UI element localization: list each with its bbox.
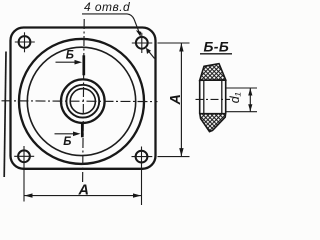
- section view: bottom hatched pentagon: [200, 114, 226, 132]
- bottom dimension A: dimension line with arrows: [24, 195, 142, 197]
- section arrow bottom: [55, 133, 75, 135]
- svg-text:d₁: d₁: [228, 92, 242, 103]
- central bore circle middle: [66, 85, 99, 118]
- corner hole bottom-left: [14, 150, 34, 162]
- flange outer circle: [19, 39, 144, 164]
- horizontal centerline (dash-dot): [2, 100, 158, 103]
- second arrow pointing at hole from lower right: [148, 51, 155, 59]
- svg-text:4 отв.d: 4 отв.d: [84, 0, 130, 14]
- section trace Б thick segment bottom: [81, 123, 84, 137]
- svg-text:Б: Б: [63, 136, 71, 148]
- svg-text:A: A: [78, 182, 89, 198]
- plate outline (rounded square, front view): [11, 28, 156, 169]
- scan artifact: dark page-edge line at far left: [4, 52, 6, 178]
- right dimension A: dimension line with arrows: [180, 43, 182, 157]
- section view: top hatched quad: [200, 64, 226, 81]
- right dimension A: extension lines: [158, 42, 190, 44]
- section view: horizontal edge at top of bottom part: [200, 113, 226, 115]
- central bore circle inner: [70, 89, 95, 114]
- d1 dimension line with arrows: [249, 88, 251, 112]
- section view: outer walls: [199, 80, 201, 113]
- corner hole top-left: [15, 32, 35, 52]
- section view: inner bore walls: [203, 80, 205, 113]
- section view: horizontal edge at bottom of top quad: [200, 79, 226, 81]
- section arrow top: [56, 61, 77, 63]
- bottom dimension A: extension lines: [23, 146, 25, 202]
- title underline: [200, 53, 232, 55]
- corner hole top-right: [132, 33, 153, 53]
- svg-text:Б-Б: Б-Б: [204, 39, 230, 55]
- corner hole bottom-right: [132, 151, 153, 163]
- vertical centerline (dash-dot): [83, 19, 85, 182]
- d1 dimension: extension lines: [226, 87, 257, 89]
- section trace Б thick segment top: [82, 55, 85, 75]
- leader underline and curve from label: [82, 14, 134, 20]
- svg-text:A: A: [168, 94, 184, 105]
- central bore circle outer: [61, 79, 105, 123]
- svg-text:Б: Б: [66, 49, 74, 61]
- leader line to top-right hole with arrowhead: [134, 20, 139, 33]
- flange inner circle: [27, 47, 135, 155]
- section view centerline: [196, 98, 231, 100]
